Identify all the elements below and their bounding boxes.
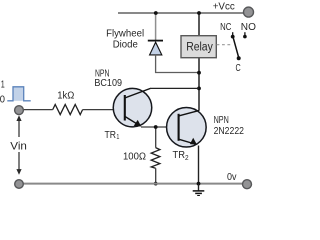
svg-text:2: 2 [185,153,189,162]
svg-text:0: 0 [0,95,5,106]
svg-text:TR: TR [173,150,186,161]
svg-text:0v: 0v [227,172,237,183]
svg-text:1: 1 [1,79,5,90]
svg-text:+Vcc: +Vcc [213,2,235,13]
svg-text:Vin: Vin [10,140,27,152]
svg-text:Relay: Relay [186,42,213,54]
svg-text:1kΩ: 1kΩ [57,91,74,102]
svg-text:NC: NC [220,22,232,33]
svg-text:C: C [236,63,242,74]
svg-text:NPN: NPN [214,115,229,126]
svg-text:BC109: BC109 [94,78,122,89]
svg-text:100Ω: 100Ω [123,152,146,163]
svg-text:2N2222: 2N2222 [214,126,245,137]
svg-text:1: 1 [116,132,119,141]
svg-text:Diode: Diode [113,40,138,51]
svg-text:NO: NO [241,22,256,33]
svg-text:Flywheel: Flywheel [106,29,144,40]
svg-text:TR: TR [105,130,117,141]
